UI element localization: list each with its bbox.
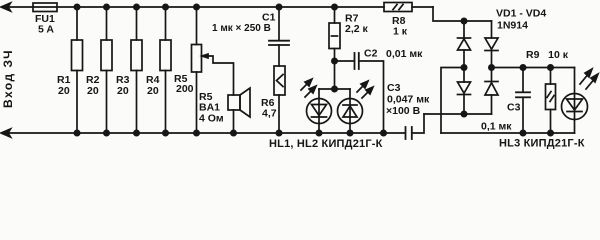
svg-text:0,01 мк: 0,01 мк	[386, 48, 423, 60]
capacitor C1	[269, 7, 289, 66]
LED HL2	[338, 89, 363, 133]
LED HL2 arrows	[357, 81, 373, 98]
input arrow top	[1, 3, 11, 11]
capacitor C3 0.047	[406, 114, 425, 139]
svg-text:5 A: 5 A	[38, 24, 54, 36]
potentiometer R5	[192, 7, 202, 133]
diode VD1	[458, 21, 471, 68]
svg-text:C3: C3	[507, 102, 521, 114]
svg-text:VD1 - VD4: VD1 - VD4	[496, 8, 546, 20]
R8 resistor body	[384, 3, 412, 12]
resistor R6	[274, 66, 285, 133]
resistor R1	[72, 7, 83, 133]
svg-text:200: 200	[176, 83, 194, 95]
svg-text:Вход ЗЧ: Вход ЗЧ	[1, 49, 15, 108]
wire bridge minus output	[441, 68, 464, 134]
wire right top rail	[492, 67, 575, 69]
LED HL1	[307, 89, 332, 133]
wire LED top connector	[319, 88, 350, 90]
wire top rail R8 to step	[412, 6, 433, 8]
svg-text:C2: C2	[364, 48, 378, 60]
svg-text:20: 20	[117, 85, 129, 97]
svg-text:1N914: 1N914	[497, 20, 528, 32]
svg-text:HL1, HL2 КИПД21Г-К: HL1, HL2 КИПД21Г-К	[269, 138, 383, 150]
fuse FU1	[33, 3, 57, 12]
diode VD4	[485, 68, 498, 115]
capacitor C3 0.1	[516, 68, 530, 134]
diode VD3	[458, 68, 471, 115]
LED HL3 arrows	[580, 69, 598, 89]
LED HL3	[562, 68, 588, 134]
input arrow bottom	[1, 129, 11, 137]
wire bridge bottom	[424, 113, 492, 115]
svg-text:C3: C3	[387, 82, 401, 94]
svg-text:1 мк × 250 В: 1 мк × 250 В	[212, 23, 271, 34]
resistor R7	[329, 7, 340, 89]
svg-text:20: 20	[87, 85, 99, 97]
svg-text:20: 20	[58, 85, 70, 97]
svg-text:C1: C1	[262, 12, 276, 24]
svg-text:20: 20	[147, 85, 159, 97]
svg-text:4 Ом: 4 Ом	[199, 113, 224, 125]
svg-text:HL3 КИПД21Г-К: HL3 КИПД21Г-К	[499, 138, 585, 150]
speaker BA1	[228, 88, 250, 133]
resistor R3	[131, 7, 142, 133]
svg-text:1 к: 1 к	[393, 26, 408, 38]
svg-text:0,1 мк: 0,1 мк	[481, 121, 512, 133]
wire R5 wiper	[202, 56, 234, 95]
resistor R4	[160, 7, 171, 133]
resistor R9	[546, 68, 556, 134]
svg-text:4,7: 4,7	[262, 108, 277, 120]
wire step down to bridge top	[433, 7, 492, 21]
diode VD2	[485, 21, 498, 68]
svg-text:R9 10 к: R9 10 к	[526, 49, 569, 61]
wire top rail left segment	[2, 6, 33, 8]
wire top rail through fuse to R8	[33, 6, 384, 8]
LED HL1 arrows	[301, 79, 316, 97]
svg-text:×100 В: ×100 В	[386, 105, 421, 117]
capacitor C2	[335, 53, 384, 133]
resistor R2	[101, 7, 112, 133]
svg-text:0,047 мк: 0,047 мк	[387, 94, 430, 106]
svg-text:2,2 к: 2,2 к	[345, 23, 369, 35]
wire right bottom rail	[441, 132, 575, 134]
R5 wiper arrowhead	[202, 54, 208, 58]
wire bottom rail	[2, 132, 405, 134]
